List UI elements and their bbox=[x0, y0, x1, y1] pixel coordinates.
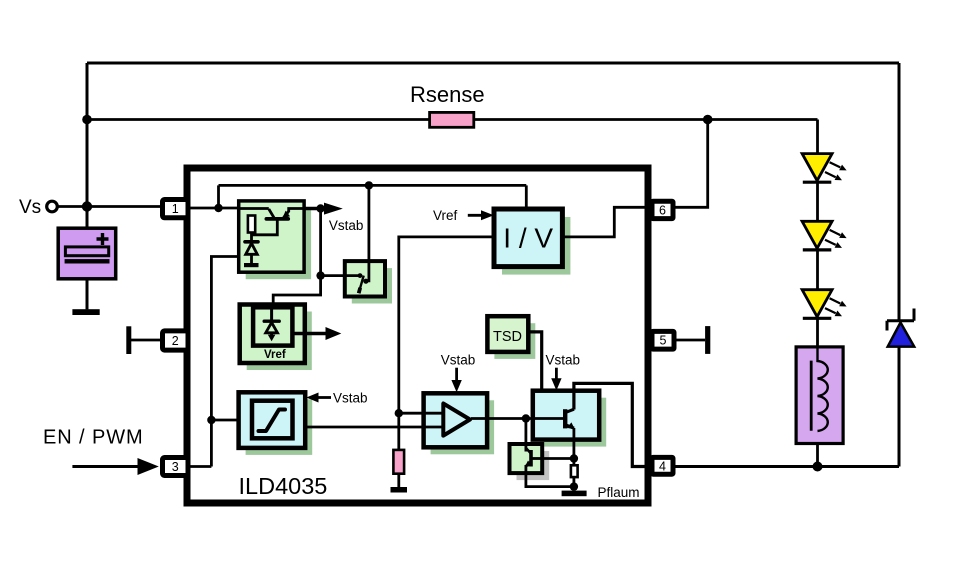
wire: I/V output to pin 6 bbox=[562, 207, 652, 237]
wire: Rsense right segment to LED string bbox=[474, 118, 818, 121]
wire: pin 5 NC stub bbox=[674, 339, 705, 342]
Vref arrow into I/V bbox=[468, 214, 484, 217]
wire: LED3 to inductor bbox=[816, 319, 819, 348]
wire: pin 6 to Rsense junction bbox=[674, 120, 708, 208]
node: switch rail / Vref junction bbox=[316, 271, 324, 279]
wire: drop to switch block top bbox=[366, 185, 369, 281]
wire: LED string top drop bbox=[816, 120, 819, 154]
Vstab down arrow into amplifier bbox=[455, 368, 458, 382]
wire: switch rail into switch block bbox=[321, 274, 361, 277]
emitter sense resistor bbox=[571, 465, 578, 477]
EN / PWM input arrow bbox=[72, 465, 140, 468]
pin 6 box bbox=[652, 201, 673, 218]
regulator block U1a body bbox=[239, 201, 304, 272]
wire: inductor bottom lead bbox=[816, 431, 819, 467]
wire: amplifier output to transistor base bbox=[471, 417, 563, 420]
LED D1 bbox=[802, 154, 832, 181]
node: amplifier output junction bbox=[522, 414, 530, 422]
pin 5 box bbox=[652, 331, 674, 349]
node: Vs junction bbox=[82, 201, 92, 211]
Vref output arrow bbox=[292, 332, 328, 335]
wire: riser from pin1 rail to internal top rail bbox=[217, 185, 220, 208]
regulator block: rail through block bbox=[239, 207, 269, 210]
clamp block: transistor symbol bbox=[526, 448, 531, 454]
node: Schmitt input junction bbox=[207, 416, 215, 424]
node: Rsense / pin6 / LED junction bbox=[703, 115, 713, 125]
regulator block: pass transistor collector diagonal bbox=[269, 209, 274, 218]
IC outline ILD4035 bbox=[187, 168, 648, 503]
shadow of I/V block bbox=[502, 217, 570, 275]
node: Rsense-top junction bbox=[82, 115, 92, 125]
wire: feed to Vref block top bbox=[273, 276, 320, 307]
svg-text:Vs: Vs bbox=[19, 197, 41, 218]
terminal bar at pin 5 stub bbox=[705, 326, 710, 354]
pin 1 box bbox=[163, 200, 189, 218]
svg-text:Vstab: Vstab bbox=[546, 353, 581, 368]
ground symbol below battery bbox=[72, 309, 99, 315]
regulator block: resistor lead down to zener bbox=[250, 232, 253, 241]
regulator block: rail out of transistor bbox=[289, 209, 304, 213]
wire: collector up and over to pin 4 bbox=[574, 383, 652, 466]
wire: Schmitt output to amplifier lower input bbox=[305, 426, 443, 429]
switch block: lever pivot bbox=[359, 288, 361, 293]
TSD block body bbox=[487, 316, 528, 352]
regulator block: pass transistor emitter diagonal with arrow bbox=[284, 211, 289, 217]
regulator block: zener triangle bbox=[246, 243, 258, 254]
wire: pin 2 NC stub bbox=[131, 339, 162, 342]
wire: pin 4 to LED return rail bbox=[674, 465, 899, 468]
battery plus sign bbox=[97, 233, 109, 245]
wire: emitter down to sense node bbox=[573, 428, 576, 465]
svg-text:2: 2 bbox=[172, 334, 179, 348]
wire: clamp block bottom lead bbox=[526, 465, 574, 487]
wire: Schmitt trigger input bbox=[211, 419, 240, 422]
regulator block: pass transistor base bar bbox=[266, 217, 288, 221]
clamp block: collector lead to right edge bbox=[531, 457, 542, 460]
shadow of regulator block U1a bbox=[246, 208, 311, 279]
wire: LED2 to LED3 bbox=[816, 251, 819, 290]
wire: internal top rail bbox=[219, 184, 527, 187]
wire: TSD output to transistor block top bbox=[528, 332, 541, 391]
resistor Rsense bbox=[430, 112, 474, 127]
output transistor Q1: collector diagonal bbox=[565, 409, 574, 412]
node: LED return junction bbox=[813, 462, 823, 472]
pin 3 box bbox=[163, 458, 189, 476]
shadow of clamp block (grey) bbox=[517, 451, 550, 480]
pin 2 box bbox=[163, 331, 189, 350]
battery top plate (outlined slot) bbox=[65, 247, 108, 256]
shadow of Schmitt trigger block bbox=[246, 399, 313, 455]
svg-text:4: 4 bbox=[659, 459, 666, 473]
ground bar below soft-start resistor bbox=[391, 487, 408, 493]
regulator block: zener anode lead bbox=[250, 254, 253, 263]
Schmitt trigger symbol bbox=[259, 410, 286, 432]
regulator block: internal ground bar bbox=[244, 263, 259, 267]
amplifier triangle bbox=[443, 404, 470, 436]
battery bottom plate bbox=[65, 259, 110, 263]
shadow of amplifier block bbox=[431, 400, 495, 454]
wire: drop into I/V top bbox=[525, 185, 528, 210]
inductor L1 core line bbox=[810, 361, 813, 431]
svg-text:Vstab: Vstab bbox=[333, 391, 368, 406]
shadow of output transistor block bbox=[540, 398, 606, 447]
svg-text:I / V: I / V bbox=[503, 223, 553, 254]
Schmitt trigger block body bbox=[239, 392, 306, 448]
I/V converter block body bbox=[494, 209, 562, 267]
zener diode D4 triangle (blue) bbox=[888, 323, 915, 347]
battery/capacitor C1 body bbox=[58, 228, 115, 279]
wire: clamp block top lead bbox=[525, 419, 528, 452]
LED D3 bbox=[802, 290, 832, 317]
output transistor block body bbox=[533, 391, 599, 440]
node: emitter sense junction bbox=[570, 454, 578, 462]
node: top rail / switch junction bbox=[365, 181, 373, 189]
shadow of switch block S1 bbox=[352, 268, 392, 303]
wire: right branch vertical (to zener) bbox=[898, 63, 901, 320]
Vs terminal circle bbox=[47, 201, 58, 212]
wire: top supply rail bbox=[87, 62, 899, 65]
output transistor Q1: emitter diagonal with arrow bbox=[565, 425, 574, 429]
output transistor Q1: base bar bbox=[563, 409, 567, 428]
wire: Vstab node drop to switch rail bbox=[319, 209, 322, 276]
Vref block inner box bbox=[253, 307, 292, 345]
wire: LED1 to LED2 bbox=[816, 184, 819, 222]
pin 4 box bbox=[652, 457, 673, 474]
wire: battery to ground bbox=[86, 279, 89, 310]
node: Vstab junction bbox=[316, 204, 324, 212]
svg-text:3: 3 bbox=[172, 460, 179, 474]
wire: regulator block stub to left vertical bbox=[211, 257, 238, 467]
wire: pin 1 to regulator block bbox=[188, 207, 240, 210]
node: pin1 internal junction bbox=[214, 204, 222, 212]
Vref block outer body bbox=[240, 305, 305, 364]
regulator block: series resistor bbox=[248, 216, 255, 233]
Vstab arrow into Schmitt trigger bbox=[316, 396, 331, 399]
switch block S1 body bbox=[345, 261, 385, 296]
Schmitt trigger inner box bbox=[252, 401, 293, 439]
inductor L1 body bbox=[796, 347, 843, 444]
regulator block: base lead down to reference node bbox=[252, 221, 278, 235]
LED D2 bbox=[802, 221, 832, 248]
ground bar at emitter sense bbox=[562, 491, 587, 497]
wire: zener to bottom rail bbox=[898, 347, 901, 467]
svg-text:Pflaum: Pflaum bbox=[598, 485, 640, 500]
amplifier block body bbox=[424, 393, 488, 447]
switch block: left contact blob bbox=[358, 273, 363, 278]
Vref block: zener cathode bar bbox=[264, 320, 279, 323]
svg-text:Rsense: Rsense bbox=[410, 82, 485, 107]
clamp block body bbox=[510, 444, 543, 473]
shadow of TSD block bbox=[494, 323, 535, 359]
wire: pin 3 to left vertical bbox=[188, 465, 211, 468]
svg-text:1: 1 bbox=[172, 202, 179, 216]
wire: Rsense left segment bbox=[87, 118, 430, 121]
switch block: lever bbox=[359, 276, 364, 293]
svg-text:ILD4035: ILD4035 bbox=[239, 473, 328, 499]
inductor L1 winding bbox=[818, 347, 828, 431]
svg-text:Vref: Vref bbox=[433, 208, 458, 223]
Vref block: anode lead with down arrow bbox=[270, 333, 273, 336]
regulator block: zener cathode bar bbox=[245, 240, 258, 244]
Vstab output arrow from regulator bbox=[304, 207, 331, 210]
svg-text:Vstab: Vstab bbox=[329, 218, 364, 233]
svg-text:Vref: Vref bbox=[264, 349, 286, 361]
Vref block: zener cathode lead bbox=[270, 307, 273, 321]
wire: soft-start resistor bottom lead bbox=[397, 474, 400, 487]
wire: Vs vertical branch bbox=[86, 63, 89, 228]
svg-text:EN / PWM: EN / PWM bbox=[43, 427, 144, 449]
switch block: top contact blob bbox=[363, 279, 368, 284]
soft-start resistor (pink) bbox=[393, 450, 404, 474]
svg-text:TSD: TSD bbox=[493, 329, 522, 345]
zener diode D4 cathode bar bbox=[887, 309, 914, 331]
svg-text:5: 5 bbox=[660, 334, 667, 348]
svg-text:Vstab: Vstab bbox=[441, 353, 476, 368]
wire: Vs terminal to pin 1 bbox=[58, 205, 163, 208]
wire: amplifier upper input from feedback node bbox=[399, 412, 444, 415]
Vref block: zener triangle bbox=[266, 323, 278, 333]
wire: I/V feedback output (left) bbox=[399, 237, 494, 450]
svg-text:6: 6 bbox=[659, 203, 666, 217]
shadow of Vref block bbox=[247, 312, 312, 371]
node: feedback junction bbox=[395, 409, 403, 417]
node: emitter ground junction bbox=[570, 482, 578, 490]
terminal bar at pin 2 stub bbox=[126, 326, 131, 354]
wire: emitter resistor to internal ground bbox=[573, 477, 576, 491]
wire: sense node to clamp block right bbox=[542, 457, 574, 460]
Vstab down arrow into output transistor block bbox=[555, 368, 558, 380]
